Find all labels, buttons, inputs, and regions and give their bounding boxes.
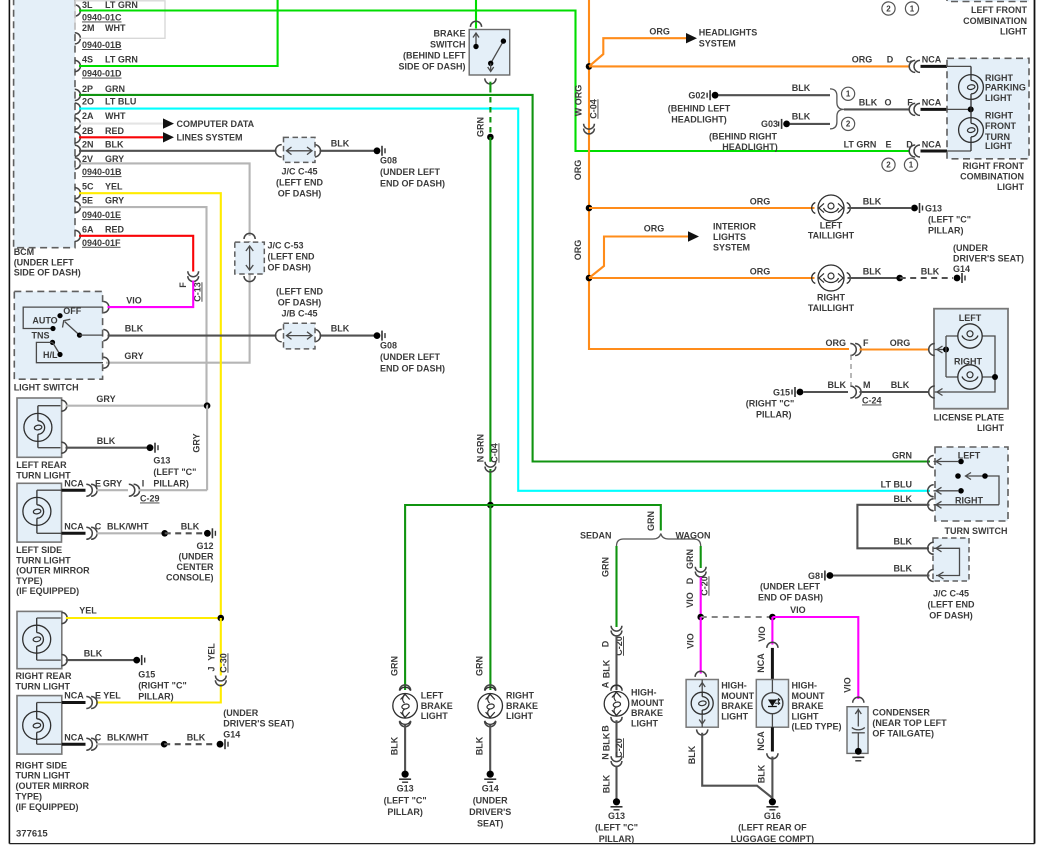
svg-text:(UNDER LEFT: (UNDER LEFT [760, 582, 820, 592]
svg-text:(BEHIND LEFT: (BEHIND LEFT [668, 103, 731, 113]
light switch OFF contact [57, 313, 62, 318]
left brake light bulb [400, 685, 411, 691]
high-mount brake light (LED type) box [756, 680, 788, 728]
svg-text:GRN: GRN [475, 656, 485, 676]
svg-text:BLK: BLK [390, 736, 400, 755]
svg-text:F: F [178, 282, 188, 288]
wire BLK license plate to ground G15 [797, 389, 804, 396]
wire BLK hmbl bulb type to ground G16 [697, 729, 708, 735]
svg-text:INTERIOR: INTERIOR [713, 221, 757, 231]
svg-text:GRY: GRY [96, 394, 115, 404]
svg-text:O: O [884, 98, 891, 108]
svg-text:LEFT: LEFT [959, 313, 982, 323]
svg-text:BLK: BLK [828, 380, 847, 390]
wire BLK J/C C-45 to ground G8 [833, 574, 930, 576]
high-mount brake light (bulb type) box [686, 680, 718, 728]
svg-text:GRN: GRN [601, 557, 611, 577]
svg-text:(LEFT "C": (LEFT "C" [595, 822, 638, 832]
svg-text:TNS: TNS [32, 331, 50, 341]
wire BLK to ground G13 (sedan) [615, 766, 617, 799]
left taillight bulb [818, 195, 844, 221]
svg-text:LUGGAGE COMPT): LUGGAGE COMPT) [731, 834, 815, 844]
wire VIO down to hmbl (bulb type) [700, 617, 702, 674]
svg-text:BLK: BLK [863, 266, 882, 276]
right rear turn light box [17, 611, 62, 668]
light switch BLK row internal [80, 334, 104, 336]
BCM pin 2O LT BLU [75, 103, 81, 114]
wire BLK right taillight dashed to ground G14 [848, 277, 900, 279]
svg-text:BLK: BLK [863, 196, 882, 206]
BCM pin 2B RED [75, 132, 81, 143]
svg-text:RIGHT: RIGHT [817, 293, 846, 303]
wire 2A WHT to computer data lines arrow [79, 123, 163, 125]
svg-text:C-20: C-20 [614, 738, 624, 758]
svg-text:END OF DASH): END OF DASH) [380, 363, 445, 373]
svg-text:(UNDER: (UNDER [953, 243, 988, 253]
junction connector J/C C-45 (right) box [933, 538, 969, 581]
BCM pin 5C YEL [75, 188, 81, 199]
svg-text:M: M [863, 380, 871, 390]
svg-text:LT GRN: LT GRN [105, 54, 138, 64]
turn switch GRN entry [928, 456, 934, 468]
svg-text:TYPE): TYPE) [16, 792, 43, 802]
light switch box [14, 291, 102, 379]
license plate internal wiring [943, 347, 949, 353]
svg-text:BLK: BLK [181, 522, 200, 532]
svg-text:GRY: GRY [124, 351, 143, 361]
svg-text:SIDE OF DASH): SIDE OF DASH) [14, 268, 81, 278]
svg-text:BRAKE: BRAKE [433, 29, 465, 39]
svg-text:DRIVER'S: DRIVER'S [469, 807, 511, 817]
svg-text:RIGHT: RIGHT [955, 496, 984, 506]
svg-text:CONDENSER: CONDENSER [872, 708, 930, 718]
left side turn light box [17, 483, 62, 542]
svg-text:BLK: BLK [859, 98, 878, 108]
left front combination light box (cut off top) [947, 0, 1029, 2]
right front combination light box [947, 58, 1029, 159]
svg-text:NCA: NCA [64, 522, 84, 532]
condenser internals [857, 709, 859, 727]
ground G08 (upper) [374, 147, 381, 154]
right side turn light box [17, 696, 62, 755]
left rear turn light box [17, 398, 62, 457]
svg-text:G14: G14 [953, 264, 970, 274]
svg-text:NCA: NCA [922, 98, 942, 108]
wire BLK LED hmbl to ground G16 [771, 757, 773, 799]
svg-text:OFF: OFF [63, 306, 81, 316]
svg-text:BCM: BCM [14, 247, 35, 257]
sedan/wagon brace [617, 534, 701, 547]
wire GRN brake switch output (dashed) [485, 78, 496, 84]
svg-text:G14: G14 [223, 730, 240, 740]
svg-text:BLK: BLK [792, 112, 811, 122]
svg-text:LIGHT SWITCH: LIGHT SWITCH [14, 383, 79, 393]
svg-text:(RIGHT "C": (RIGHT "C" [138, 681, 187, 691]
svg-text:LT GRN: LT GRN [844, 140, 877, 150]
license plate entry arrows [929, 344, 935, 356]
wire 2O LT BLU : BCM to turn switch RIGHT [79, 109, 930, 491]
svg-text:LEFT SIDE: LEFT SIDE [16, 545, 62, 555]
svg-text:SEAT): SEAT) [477, 818, 503, 828]
page border right [1034, 0, 1036, 844]
svg-text:LT BLU: LT BLU [105, 97, 136, 107]
svg-text:LINES SYSTEM: LINES SYSTEM [177, 133, 243, 143]
svg-text:2: 2 [886, 4, 891, 13]
connector C-13 [188, 271, 199, 276]
wire ORG to left taillight [589, 207, 815, 209]
svg-text:BRAKE: BRAKE [421, 701, 453, 711]
svg-text:NCA: NCA [756, 731, 766, 751]
svg-text:BLK: BLK [97, 436, 116, 446]
svg-text:OF DASH): OF DASH) [929, 611, 973, 621]
svg-text:TAILLIGHT: TAILLIGHT [808, 303, 855, 313]
svg-text:BRAKE: BRAKE [506, 701, 538, 711]
svg-text:SYSTEM: SYSTEM [699, 39, 736, 49]
BCM pin 2N BLK [75, 145, 81, 156]
wire VIO junction to condenser [772, 617, 858, 699]
svg-text:ORG: ORG [574, 85, 584, 106]
BCM pin 6A RED [75, 230, 81, 241]
svg-text:COMBINATION: COMBINATION [960, 172, 1024, 182]
wire YEL down through connector C-30 [220, 618, 222, 676]
light switch wiper [65, 322, 80, 336]
svg-text:G08: G08 [380, 340, 397, 350]
svg-text:SWITCH: SWITCH [430, 40, 466, 50]
svg-text:BRAKE: BRAKE [721, 701, 753, 711]
brake switch box [470, 21, 481, 27]
right rear turn light bulb [23, 625, 51, 653]
wire GRY left rear turn light to junction [66, 405, 205, 407]
svg-text:SYSTEM: SYSTEM [713, 243, 750, 253]
svg-text:HEADLIGHT): HEADLIGHT) [722, 142, 778, 152]
svg-text:RIGHT: RIGHT [954, 357, 983, 367]
ground G03 (behind right headlight) [783, 121, 790, 128]
svg-text:BLK: BLK [757, 764, 767, 783]
svg-text:LEFT: LEFT [820, 220, 843, 230]
svg-text:0940-01F: 0940-01F [82, 238, 121, 248]
ground G14 (under drivers seat) bottom [487, 771, 494, 778]
svg-text:TURN LIGHT: TURN LIGHT [16, 681, 71, 691]
svg-text:MOUNT: MOUNT [721, 691, 754, 701]
svg-text:PILLAR): PILLAR) [756, 410, 792, 420]
ground G08 (lower) [374, 332, 381, 339]
svg-text:(RIGHT "C": (RIGHT "C" [746, 399, 795, 409]
svg-text:BLK: BLK [687, 745, 697, 764]
wire 2V GRY : BCM down through J/C C-53 to light switch GRY row [79, 163, 250, 236]
left side turn light bulb [23, 497, 51, 525]
svg-text:BLK: BLK [894, 564, 913, 574]
svg-text:WAGON: WAGON [676, 531, 711, 541]
svg-text:LIGHT: LIGHT [985, 93, 1012, 103]
svg-text:G13: G13 [925, 204, 942, 214]
ground G8 (under left end of dash) [827, 572, 834, 579]
license plate LEFT bulb [958, 324, 982, 348]
high-mount brake light (sedan, bulb) [611, 685, 622, 691]
svg-text:GRN: GRN [390, 656, 400, 676]
svg-text:C: C [95, 732, 102, 742]
license plate light box [934, 309, 1008, 409]
turn switch wiper row [955, 473, 961, 479]
svg-text:N: N [476, 456, 486, 463]
svg-text:VIO: VIO [126, 296, 142, 306]
ground G13 (left C pillar) sedan [613, 798, 620, 805]
svg-text:(LEFT "C": (LEFT "C" [384, 795, 427, 805]
svg-text:0940-01D: 0940-01D [82, 69, 122, 79]
svg-text:(UNDER LEFT: (UNDER LEFT [14, 257, 74, 267]
right side turn light bulb [23, 711, 51, 739]
license plate RIGHT bulb [958, 365, 982, 389]
LED symbol [768, 700, 777, 707]
wire BLK sedan hmbl to connector C-20 lower [615, 720, 617, 757]
connector C / NCA right front [909, 60, 915, 72]
ground G12 (under center console) [204, 530, 211, 537]
right front turn light bulb [959, 118, 984, 143]
wire ORG main bus from top [589, 0, 849, 349]
wire BLK : light switch through J/B C-45 to ground G08 [108, 335, 277, 337]
svg-text:NCA: NCA [756, 653, 766, 673]
svg-text:(LED TYPE): (LED TYPE) [792, 722, 842, 732]
svg-text:C-04: C-04 [490, 443, 500, 463]
wire GRN down through connector C-04 to junction [489, 137, 491, 462]
svg-text:ORG: ORG [852, 55, 873, 65]
svg-text:B: B [601, 725, 611, 732]
svg-text:OF DASH): OF DASH) [278, 298, 322, 308]
svg-text:PARKING: PARKING [985, 82, 1026, 92]
wire NCA C BLK/WHT to ground G12 [62, 532, 86, 535]
svg-text:VIO: VIO [843, 677, 853, 693]
svg-text:D: D [685, 577, 695, 584]
svg-text:LIGHTS: LIGHTS [713, 232, 746, 242]
svg-text:VIO: VIO [790, 605, 806, 615]
wire BLK right brake light to ground G14 [489, 724, 491, 771]
svg-text:BLK/WHT: BLK/WHT [107, 522, 149, 532]
svg-text:CENTER: CENTER [176, 562, 214, 572]
junction block J/B C-45 (lower) [276, 329, 282, 341]
svg-text:NCA: NCA [64, 732, 84, 742]
junction VIO 2 [769, 614, 776, 621]
svg-text:TURN LIGHT: TURN LIGHT [16, 470, 71, 480]
svg-text:BLK: BLK [894, 537, 913, 547]
svg-text:LEFT: LEFT [958, 451, 981, 461]
svg-text:2: 2 [846, 120, 851, 129]
svg-text:GRN: GRN [646, 511, 656, 531]
svg-text:(LEFT END: (LEFT END [928, 600, 975, 610]
svg-text:LEFT FRONT: LEFT FRONT [971, 5, 1027, 15]
wire ORG to right taillight [589, 277, 815, 279]
svg-text:(BEHIND LEFT: (BEHIND LEFT [403, 51, 466, 61]
svg-text:G15: G15 [773, 388, 790, 398]
svg-text:BLK: BLK [921, 266, 940, 276]
ground G02 (behind left headlight) [712, 92, 719, 99]
svg-text:PILLAR): PILLAR) [153, 479, 189, 489]
svg-text:LIGHT: LIGHT [421, 711, 448, 721]
wire 2M WHT loop box (faint) [75, 1, 165, 39]
svg-text:BLK: BLK [602, 774, 612, 793]
page border bottom [9, 843, 1034, 845]
svg-text:ORG: ORG [890, 338, 911, 348]
junction ORG 1 [586, 63, 593, 70]
wire YEL right rear turn light to junction [66, 617, 218, 619]
svg-text:G03: G03 [761, 119, 778, 129]
svg-text:BLK: BLK [331, 324, 350, 334]
svg-text:J/B C-45: J/B C-45 [281, 309, 317, 319]
svg-text:1: 1 [846, 90, 851, 99]
BCM pin 4S LT GRN [75, 60, 81, 71]
junction VIO 1 [697, 614, 704, 621]
svg-text:GRN: GRN [476, 117, 486, 137]
right front combination internal wires [947, 66, 971, 151]
svg-text:GRN: GRN [892, 451, 912, 461]
BCM pin 2V GRY [75, 158, 81, 169]
svg-text:G08: G08 [380, 156, 397, 166]
svg-text:HEADLIGHTS: HEADLIGHTS [699, 28, 758, 38]
svg-text:(LEFT "C": (LEFT "C" [153, 467, 196, 477]
svg-text:LICENSE PLATE: LICENSE PLATE [934, 413, 1004, 423]
svg-text:BLK: BLK [187, 732, 206, 742]
wire VIO : light switch to connector C-13 [108, 281, 194, 308]
svg-text:RIGHT REAR: RIGHT REAR [16, 671, 73, 681]
svg-text:GRY: GRY [192, 433, 202, 452]
svg-text:COMBINATION: COMBINATION [963, 16, 1027, 26]
svg-text:ORG: ORG [644, 224, 665, 234]
svg-text:LIGHT: LIGHT [792, 711, 819, 721]
junction GRN brake feed [487, 502, 494, 509]
wire 2B RED to computer data lines arrow [79, 136, 163, 138]
wire BLK left rear turn light to ground G13 [66, 447, 148, 449]
svg-text:BLK: BLK [331, 139, 350, 149]
svg-text:BRAKE: BRAKE [631, 708, 663, 718]
wire BLK left brake light to ground G13 [404, 724, 406, 771]
svg-text:E: E [95, 691, 101, 701]
svg-text:RIGHT SIDE: RIGHT SIDE [16, 760, 68, 770]
wire ORG branch to interior lights system [589, 237, 688, 279]
wire NCA LED hmbl down [771, 727, 774, 751]
junction connector J/C C-45 (top) [276, 145, 282, 157]
svg-text:H/L: H/L [43, 350, 58, 360]
svg-text:OF DASH): OF DASH) [278, 189, 322, 199]
wire 6A RED : BCM down to connector C-13 [79, 236, 193, 272]
wire NCA to LED hmbl [771, 648, 774, 680]
svg-text:GRY: GRY [103, 478, 122, 488]
svg-text:MOUNT: MOUNT [631, 698, 664, 708]
svg-text:2A: 2A [82, 111, 94, 121]
svg-text:2M: 2M [82, 23, 95, 33]
svg-text:1: 1 [910, 4, 915, 13]
wire BLK G03 to brace [790, 123, 830, 125]
svg-text:NCA: NCA [64, 691, 84, 701]
BCM pin 2A WHT [75, 118, 81, 129]
svg-text:(LEFT REAR OF: (LEFT REAR OF [738, 822, 807, 832]
light switch TNS/HL contacts [50, 340, 55, 345]
svg-text:C: C [906, 55, 913, 65]
svg-text:5C: 5C [82, 182, 94, 192]
svg-text:2O: 2O [82, 97, 94, 107]
svg-text:BLK: BLK [891, 380, 910, 390]
svg-text:4S: 4S [82, 54, 93, 64]
svg-text:(UNDER: (UNDER [473, 795, 508, 805]
wire VIO down to hmbl (LED type) [771, 617, 773, 645]
svg-text:VIO: VIO [686, 633, 696, 649]
svg-text:SIDE OF DASH): SIDE OF DASH) [398, 62, 465, 72]
wire 5E GRY : BCM down to left turn lights [79, 207, 207, 403]
svg-text:NCA: NCA [922, 140, 942, 150]
wire 2P GRN : BCM to turn switch LEFT [79, 95, 930, 462]
page border left [8, 0, 10, 844]
svg-text:ORG: ORG [573, 240, 583, 261]
svg-text:(LEFT END: (LEFT END [276, 287, 323, 297]
svg-text:2P: 2P [82, 84, 93, 94]
svg-text:RED: RED [105, 225, 125, 235]
BCM pin 5E GRY [75, 202, 81, 213]
ground G16 (left rear of luggage compt) [769, 798, 776, 805]
svg-text:F: F [863, 338, 869, 348]
svg-text:TYPE): TYPE) [16, 576, 43, 586]
svg-text:LIGHT: LIGHT [631, 718, 658, 728]
svg-text:D: D [887, 55, 894, 65]
svg-text:RIGHT FRONT: RIGHT FRONT [963, 161, 1025, 171]
svg-text:LIGHT: LIGHT [721, 711, 748, 721]
svg-text:(LEFT END: (LEFT END [268, 252, 315, 262]
svg-text:J/C C-53: J/C C-53 [268, 241, 304, 251]
wire GRN to left/right brake lights and sedan/wagon [405, 505, 661, 690]
condenser box [853, 697, 864, 703]
svg-text:ORG: ORG [825, 338, 846, 348]
svg-text:YEL: YEL [103, 691, 121, 701]
svg-text:DRIVER'S SEAT): DRIVER'S SEAT) [953, 254, 1024, 264]
svg-text:0940-01B: 0940-01B [82, 40, 122, 50]
svg-text:WHT: WHT [105, 23, 126, 33]
svg-text:PILLAR): PILLAR) [387, 807, 423, 817]
svg-text:C: C [95, 522, 102, 532]
svg-text:(LEFT "C": (LEFT "C" [928, 215, 971, 225]
right parking light bulb [959, 75, 984, 100]
svg-text:G15: G15 [138, 670, 155, 680]
svg-text:0940-01E: 0940-01E [82, 210, 121, 220]
svg-text:END OF DASH): END OF DASH) [380, 179, 445, 189]
wire 5C YEL : BCM down to right turn lights [79, 193, 221, 615]
svg-text:ORG: ORG [750, 266, 771, 276]
svg-text:C-29: C-29 [140, 494, 160, 504]
connector C-04 arcs on ORG bus [584, 124, 595, 129]
svg-text:BLK: BLK [602, 659, 612, 678]
junction GRY [204, 402, 211, 409]
svg-text:BLK: BLK [125, 324, 144, 334]
svg-text:LIGHT: LIGHT [1000, 27, 1027, 37]
light switch pins [103, 302, 109, 313]
svg-text:(IF EQUIPPED): (IF EQUIPPED) [16, 802, 79, 812]
svg-text:C-24: C-24 [862, 396, 882, 406]
svg-text:SEDAN: SEDAN [580, 531, 612, 541]
svg-text:D: D [601, 640, 611, 647]
svg-text:2: 2 [886, 161, 891, 170]
ground G13 (left C pillar) bottom [402, 771, 409, 778]
wire VIO wagon to junction [700, 577, 702, 617]
wire BLK combined to right front combination [844, 108, 910, 110]
junction ORG 3 (right taillight) [586, 275, 593, 282]
svg-text:PILLAR): PILLAR) [928, 226, 964, 236]
BCM pin 2M WHT [75, 33, 81, 44]
light switch internal VIO path [23, 307, 103, 328]
svg-text:G12: G12 [196, 541, 213, 551]
right taillight bulb [818, 265, 844, 291]
svg-text:6A: 6A [82, 225, 94, 235]
svg-text:BLK: BLK [475, 736, 485, 755]
wire GRN wagon branch through C-20 [700, 546, 702, 568]
svg-text:1: 1 [909, 161, 914, 170]
svg-text:G13: G13 [153, 456, 170, 466]
ground G15 (right C pillar) [133, 657, 140, 664]
svg-text:RIGHT: RIGHT [985, 111, 1014, 121]
